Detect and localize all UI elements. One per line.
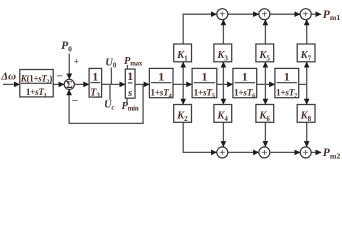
svg-text:+: + <box>303 147 309 159</box>
svg-text:1: 1 <box>201 69 207 83</box>
svg-text:+: + <box>261 147 267 159</box>
svg-text:+: + <box>261 9 267 21</box>
svg-text:+: + <box>219 147 225 159</box>
svg-text:−: − <box>56 71 62 83</box>
svg-text:1: 1 <box>242 69 248 83</box>
svg-text:1: 1 <box>127 69 133 83</box>
svg-text:Σ: Σ <box>66 80 73 91</box>
svg-text:1: 1 <box>92 69 98 83</box>
svg-text:−: − <box>72 95 78 107</box>
svg-text:+: + <box>74 58 79 68</box>
svg-text:Δω: Δω <box>0 70 16 82</box>
svg-text:1+sT5: 1+sT5 <box>194 88 215 99</box>
svg-text:+: + <box>219 9 225 21</box>
svg-text:1: 1 <box>284 69 290 83</box>
svg-text:+: + <box>303 9 309 21</box>
svg-text:s: s <box>127 88 132 99</box>
svg-text:1: 1 <box>158 69 164 83</box>
